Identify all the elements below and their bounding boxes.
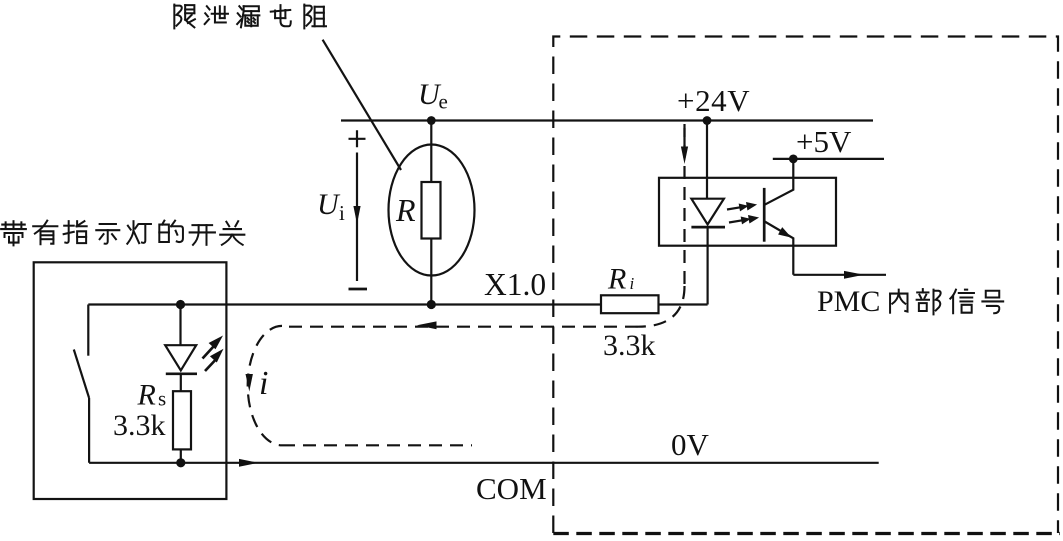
opto LED triangle xyxy=(691,199,724,225)
svg-text:R: R xyxy=(395,192,416,228)
arrow PMC signal output arrowhead xyxy=(844,271,864,279)
wire 0V/COM line xyxy=(89,462,879,464)
resistor Ri body xyxy=(601,295,659,313)
opto LED cathode bar xyxy=(691,226,725,229)
wire +5V supply line xyxy=(773,158,884,160)
svg-text:0V: 0V xyxy=(671,427,710,462)
arrow emitter arrowhead xyxy=(778,227,791,238)
label Ui voltage xyxy=(317,188,345,225)
LED emission arrow 1 xyxy=(203,336,224,359)
PMC dashed enclosure bottom edge xyxy=(553,532,1060,535)
current path i left rounded end xyxy=(248,326,282,445)
label minus sign of Ui xyxy=(349,288,368,291)
label char guan 关 xyxy=(220,221,244,245)
node +24V junction dot xyxy=(703,116,712,125)
phototransistor base bar xyxy=(763,188,766,242)
label char deng 灯 xyxy=(127,221,151,244)
wire X1.0 input line xyxy=(88,303,601,305)
wire +24V to opto anode xyxy=(706,121,708,199)
svg-text:+24V: +24V xyxy=(677,83,750,118)
label char bu 部 xyxy=(917,289,941,314)
node +5V junction dot xyxy=(789,155,798,164)
current path i dashed lower horizontal xyxy=(282,444,472,446)
label char zhi 指 xyxy=(64,221,87,243)
opto light arrow 1 xyxy=(726,200,758,214)
node X1.0 junction dot xyxy=(427,300,436,309)
LED indicator cathode bar xyxy=(166,372,197,375)
label char shi 示 xyxy=(96,224,119,244)
label char lou 漏 xyxy=(237,6,259,27)
label char dai 带 xyxy=(1,221,26,245)
opto light arrow 2 xyxy=(728,213,760,227)
svg-text:X1.0: X1.0 xyxy=(484,267,546,302)
PMC dashed enclosure xyxy=(553,37,1058,534)
label plus sign of Ui xyxy=(349,130,366,147)
svg-text:s: s xyxy=(158,387,166,411)
wire resistor R to X1.0 line xyxy=(430,238,432,305)
wire switch branch lower xyxy=(88,398,90,463)
svg-text:R: R xyxy=(137,379,156,412)
label char nei 内 xyxy=(890,290,907,313)
svg-text:PMC: PMC xyxy=(817,285,880,318)
label char xin 信 xyxy=(950,290,974,314)
svg-text:i: i xyxy=(259,365,268,402)
arrow current i downward at +24V xyxy=(681,128,688,164)
svg-text:3.3k: 3.3k xyxy=(603,329,656,362)
arrow current i downward at loop xyxy=(246,374,253,392)
svg-text:COM: COM xyxy=(476,471,547,506)
label char dian 电 xyxy=(271,5,291,26)
label char hao 号 xyxy=(982,291,1003,314)
wire switch branch upper xyxy=(87,305,89,356)
wire Rs to bottom rail xyxy=(180,449,182,462)
LED emission arrow 2 xyxy=(205,349,224,371)
svg-text:3.3k: 3.3k xyxy=(113,409,166,442)
current path i dashed vertical at +24V xyxy=(683,124,685,286)
wire lamp anode xyxy=(179,305,181,346)
label char kai 开 xyxy=(190,225,215,245)
svg-text:U: U xyxy=(317,188,341,221)
wire leader line from label to R ellipse xyxy=(323,40,401,170)
node Ue junction dot xyxy=(427,116,436,125)
wire top supply rail Ue/+24V xyxy=(341,119,873,121)
resistor Rs body xyxy=(173,391,191,449)
svg-text:R: R xyxy=(607,263,626,296)
resistor R body xyxy=(422,182,441,239)
label char xie 泄 xyxy=(205,6,228,24)
current path i dashed curve around Ri xyxy=(638,286,685,327)
label Ue net name xyxy=(418,78,448,114)
resistor R ellipse enclosure xyxy=(389,145,475,276)
arrow Ui downward arrowhead xyxy=(353,206,360,224)
switch S1 blade xyxy=(74,350,89,399)
wire opto cathode down to X1.0 xyxy=(706,227,708,304)
switch box enclosure xyxy=(34,262,227,499)
svg-text:e: e xyxy=(439,90,448,114)
LED indicator lamp triangle xyxy=(165,345,196,370)
arrow current i leftward xyxy=(417,321,437,329)
label Rs designator xyxy=(137,379,167,412)
label char you 有 xyxy=(33,221,57,245)
label Ri designator xyxy=(607,263,635,296)
wire rail to resistor R xyxy=(430,121,432,183)
wire lamp cathode to Rs xyxy=(180,374,182,391)
svg-text:i: i xyxy=(339,201,345,225)
label char xian 限 xyxy=(174,5,195,29)
wire Ri to optocoupler cathode xyxy=(659,303,708,305)
svg-text:i: i xyxy=(630,274,635,293)
optocoupler U1 package xyxy=(659,178,836,246)
node lamp branch top junction dot xyxy=(176,300,185,309)
wire Ui measurement line xyxy=(356,153,358,282)
svg-text:+5V: +5V xyxy=(796,124,852,159)
phototransistor emitter xyxy=(765,222,794,275)
arrow COM line rightward xyxy=(239,459,259,467)
current path i dashed upper horizontal xyxy=(282,326,638,328)
label char de 的 xyxy=(159,221,183,242)
label char zu 阻 xyxy=(304,5,326,29)
wire PMC internal signal output xyxy=(793,274,886,276)
node bottom rail junction dot xyxy=(176,458,185,467)
phototransistor collector xyxy=(765,159,794,205)
